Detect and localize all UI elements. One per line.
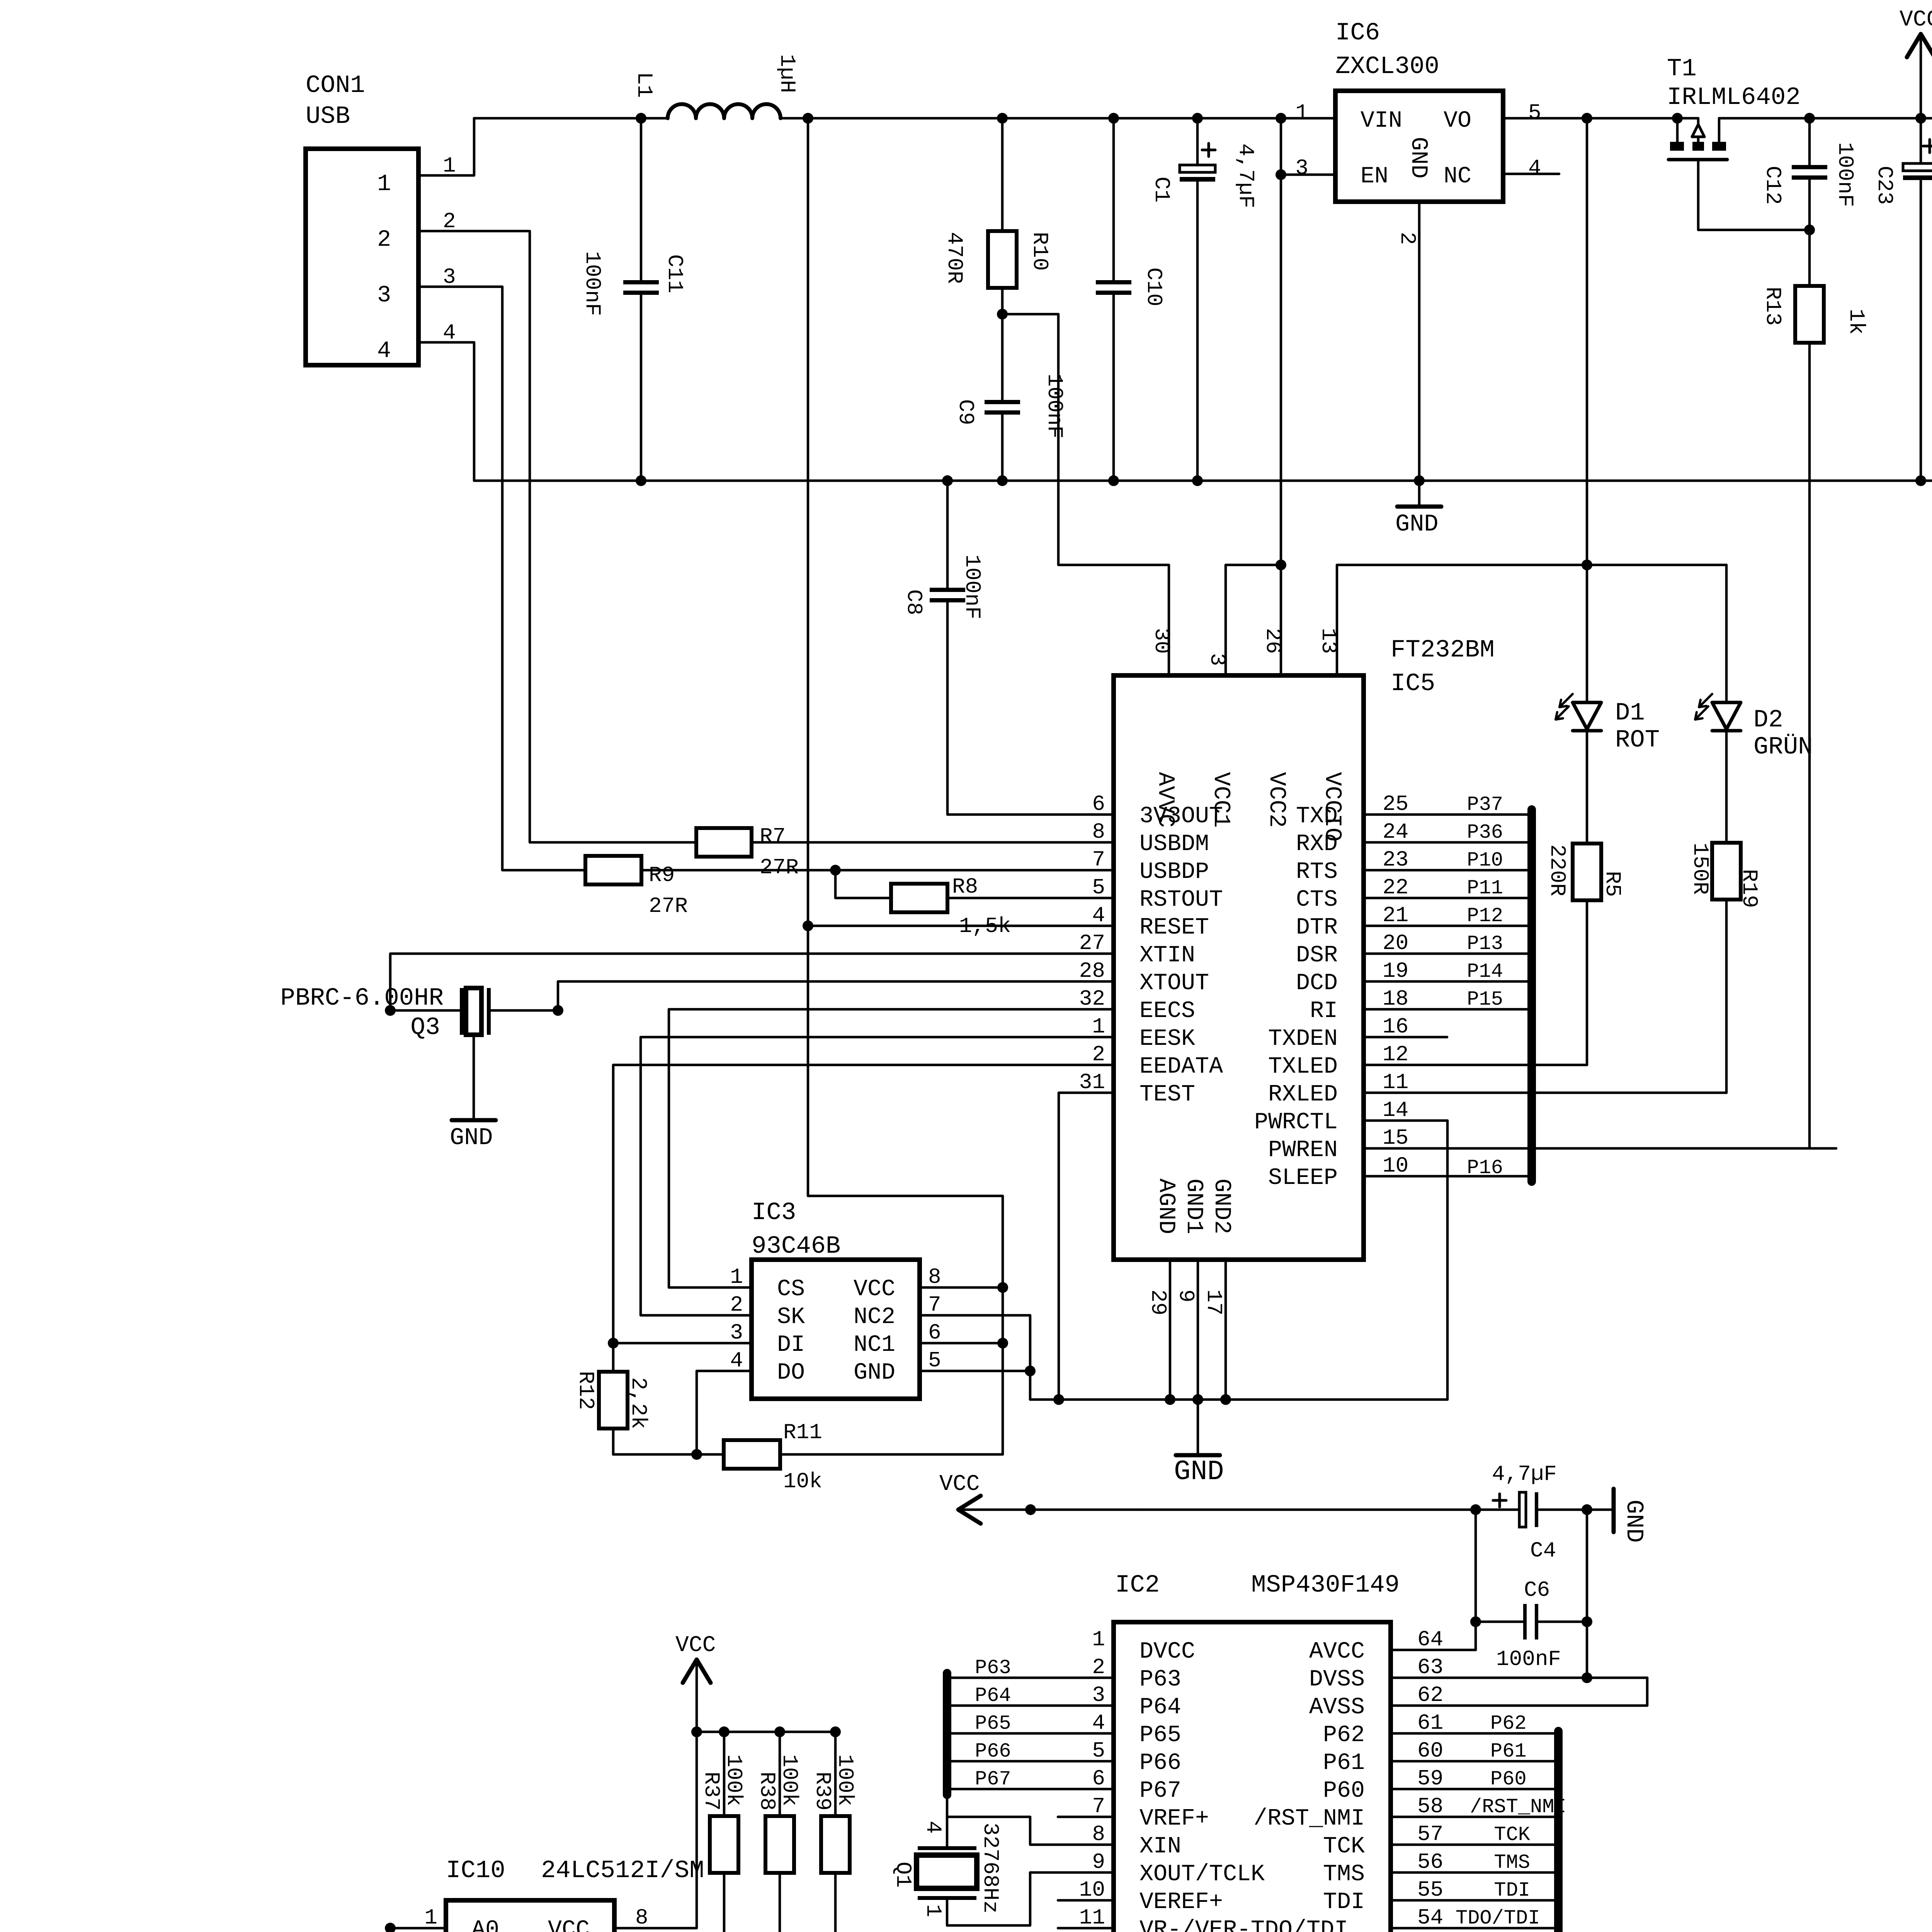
- svg-text:100nF: 100nF: [1496, 1647, 1561, 1672]
- svg-text:NC: NC: [1444, 163, 1471, 190]
- svg-text:60: 60: [1417, 1738, 1443, 1763]
- svg-text:GRÜN: GRÜN: [1753, 733, 1813, 761]
- svg-text:DVCC: DVCC: [1139, 1639, 1195, 1665]
- svg-text:220R: 220R: [1545, 844, 1570, 896]
- svg-text:3: 3: [730, 1320, 743, 1345]
- wire 93C46 VCC pin8: [920, 1282, 1008, 1293]
- svg-text:2,2k: 2,2k: [626, 1377, 651, 1429]
- wire CON1 pin3 to USBDP R9: [418, 287, 585, 870]
- svg-text:RESET: RESET: [1139, 915, 1209, 941]
- svg-text:USBDM: USBDM: [1139, 831, 1209, 857]
- svg-text:3: 3: [1295, 156, 1308, 180]
- svg-text:150R: 150R: [1688, 843, 1713, 895]
- svg-text:VCC: VCC: [548, 1917, 590, 1932]
- svg-text:4: 4: [1092, 1711, 1105, 1735]
- svg-text:GND: GND: [450, 1124, 493, 1151]
- svg-text:AGND: AGND: [1153, 1179, 1179, 1234]
- svg-text:31: 31: [1079, 1070, 1105, 1095]
- capacitor C4 4,7uF: [1492, 1462, 1614, 1563]
- svg-text:GND: GND: [1620, 1500, 1648, 1543]
- power symbol VCC arrow left MSP430: [939, 1472, 1139, 1524]
- resistor R38 100k: [755, 1732, 802, 1932]
- svg-text:5: 5: [1092, 875, 1105, 900]
- svg-text:P11: P11: [1467, 877, 1503, 900]
- IC3 93C46B EEPROM: [730, 1199, 941, 1399]
- svg-text:1: 1: [377, 171, 391, 197]
- svg-text:P67: P67: [1139, 1778, 1181, 1804]
- wire VCC rail after T1: [1719, 113, 1932, 124]
- resistor R19 150R: [1688, 843, 1762, 1093]
- wire AVCC filter node R10 C9 to FT232 AVCC: [997, 309, 1169, 675]
- svg-text:R10: R10: [1027, 232, 1052, 271]
- svg-text:100k: 100k: [777, 1754, 802, 1806]
- svg-text:DTR: DTR: [1296, 915, 1338, 941]
- svg-text:IC10: IC10: [446, 1857, 505, 1885]
- wire 93C46 NC2 pin7 to GND: [920, 1315, 1036, 1400]
- svg-text:P64: P64: [975, 1684, 1011, 1707]
- capacitor C23 4,7uF: [1872, 118, 1932, 486]
- svg-text:L1: L1: [632, 72, 656, 98]
- svg-text:58: 58: [1417, 1794, 1443, 1819]
- node VBUS after L1 vertical to FT232 RESET and 93C46 VCC: [808, 118, 1003, 1287]
- svg-text:5: 5: [1092, 1738, 1105, 1763]
- svg-text:ROT: ROT: [1615, 726, 1660, 754]
- svg-text:2: 2: [730, 1293, 743, 1317]
- wire FT232 RESET: [803, 920, 1114, 931]
- svg-text:R5: R5: [1600, 871, 1625, 897]
- svg-text:55: 55: [1417, 1878, 1443, 1902]
- svg-text:11: 11: [1079, 1905, 1105, 1930]
- ground symbol below IC5: [1174, 1400, 1224, 1488]
- svg-text:63: 63: [1417, 1655, 1443, 1680]
- power symbol VCC above pullups: [675, 1633, 716, 1732]
- svg-text:C12: C12: [1760, 166, 1785, 205]
- svg-text:PWRCTL: PWRCTL: [1254, 1109, 1338, 1136]
- transistor T1 IRLML6402 PMOS: [1667, 55, 1810, 230]
- svg-text:100nF: 100nF: [1042, 374, 1067, 439]
- capacitor C12 100nF: [1760, 118, 1857, 235]
- svg-text:5: 5: [1528, 100, 1541, 125]
- wire IC10 VCC pin8: [614, 1732, 697, 1928]
- resistor R12 2,2k: [573, 1343, 651, 1454]
- svg-text:IC3: IC3: [752, 1199, 796, 1227]
- svg-text:TDI: TDI: [1323, 1889, 1365, 1915]
- svg-text:RXLED: RXLED: [1268, 1082, 1338, 1108]
- svg-text:21: 21: [1383, 903, 1408, 928]
- wire IC6 GND pin2 to GND rail: [1414, 202, 1425, 486]
- svg-text:10k: 10k: [783, 1469, 822, 1494]
- capacitor C6 100nF: [1470, 1510, 1592, 1683]
- wires P62 P61 P60 to bus: [1391, 1712, 1558, 1791]
- resistor R39 100k: [810, 1732, 857, 1932]
- svg-text:R8: R8: [952, 874, 978, 899]
- svg-text:P60: P60: [1490, 1768, 1527, 1791]
- svg-text:ZXCL300: ZXCL300: [1335, 53, 1439, 81]
- svg-text:GND2: GND2: [1208, 1179, 1235, 1234]
- svg-text:C10: C10: [1141, 267, 1166, 306]
- IC5 top pins AVVC VCC1 VCC2 VCCIO: [1149, 628, 1345, 842]
- svg-text:DVSS: DVSS: [1309, 1667, 1365, 1693]
- svg-text:27R: 27R: [760, 855, 799, 880]
- svg-text:TDI: TDI: [1494, 1879, 1530, 1902]
- svg-text:DCD: DCD: [1296, 970, 1338, 997]
- resistor R37 100k: [699, 1732, 746, 1932]
- IC2 MSP430F149: [1114, 1571, 1400, 1932]
- svg-text:GND: GND: [854, 1360, 895, 1386]
- wire RXLED to D2: [1364, 1092, 1726, 1094]
- svg-text:13: 13: [1316, 628, 1341, 654]
- svg-text:9: 9: [1092, 1850, 1105, 1874]
- wire AVCC to VCC: [1391, 1649, 1476, 1651]
- bus MSP430 left P63-P67: [943, 1673, 951, 1795]
- svg-text:1k: 1k: [1844, 309, 1869, 335]
- svg-text:19: 19: [1383, 959, 1408, 983]
- svg-text:FT232BM: FT232BM: [1391, 636, 1495, 664]
- svg-text:TXLED: TXLED: [1268, 1054, 1338, 1080]
- svg-text:P67: P67: [975, 1768, 1011, 1791]
- svg-text:4,7µF: 4,7µF: [1233, 143, 1258, 208]
- wire TEST to GND: [1053, 1093, 1114, 1405]
- svg-text:R12: R12: [573, 1371, 598, 1410]
- svg-text:16: 16: [1383, 1014, 1408, 1039]
- svg-text:57: 57: [1417, 1822, 1443, 1847]
- svg-text:VR-/VER-TDO/TDI: VR-/VER-TDO/TDI: [1139, 1917, 1348, 1932]
- svg-text:P36: P36: [1467, 821, 1503, 844]
- wire IC6 NC stub: [1503, 173, 1559, 175]
- connector CON1 USB: [306, 72, 456, 365]
- wire CON1 pin4 to GND rail: [418, 342, 474, 481]
- svg-text:4: 4: [921, 1821, 946, 1834]
- svg-text:6: 6: [928, 1320, 941, 1345]
- svg-text:TDO/TDI: TDO/TDI: [1456, 1907, 1540, 1930]
- svg-text:SK: SK: [777, 1304, 805, 1330]
- svg-text:2: 2: [1092, 1042, 1105, 1067]
- svg-text:R19: R19: [1737, 869, 1762, 908]
- LED D2 GRUEN: [1695, 565, 1813, 843]
- wire VREF+ stub: [1058, 1816, 1114, 1818]
- svg-text:P15: P15: [1467, 988, 1503, 1011]
- svg-text:EESK: EESK: [1139, 1026, 1195, 1052]
- svg-text:100k: 100k: [833, 1754, 857, 1806]
- svg-text:8: 8: [1092, 820, 1105, 844]
- svg-text:24LC512I/SM: 24LC512I/SM: [541, 1857, 704, 1885]
- svg-text:R9: R9: [649, 863, 675, 888]
- svg-text:DO: DO: [777, 1360, 805, 1386]
- capacitor C1 4,7uF: [1149, 118, 1258, 481]
- svg-text:TEST: TEST: [1139, 1082, 1195, 1108]
- svg-text:USBDP: USBDP: [1139, 859, 1209, 885]
- crystal Q1 32768Hz: [891, 1821, 1003, 1917]
- resistor R9 27R on USBDP: [585, 856, 1114, 918]
- svg-text:3: 3: [1092, 1683, 1105, 1708]
- wire XTIN to Q3: [385, 954, 1114, 1016]
- wire VEREF+ stub: [1058, 1899, 1114, 1902]
- wire DVSS AVSS to GND: [1391, 1678, 1647, 1706]
- svg-text:NC2: NC2: [854, 1304, 895, 1330]
- svg-text:XOUT/TCLK: XOUT/TCLK: [1139, 1861, 1265, 1888]
- svg-text:PBRC-6.00HR: PBRC-6.00HR: [281, 985, 444, 1012]
- wire VCC1 VCC2 riser of IC5: [1226, 118, 1286, 675]
- wire EEDATA to 93C46 DI: [608, 1065, 1114, 1349]
- svg-text:EN: EN: [1361, 163, 1388, 190]
- svg-text:R11: R11: [783, 1420, 822, 1445]
- svg-text:4: 4: [1092, 903, 1105, 928]
- svg-text:25: 25: [1383, 792, 1408, 816]
- svg-text:R13: R13: [1760, 287, 1785, 326]
- wire AVCC VCCIO 3V3 rail: [1337, 118, 1726, 675]
- svg-text:P66: P66: [975, 1740, 1011, 1763]
- svg-text:P65: P65: [1139, 1722, 1181, 1748]
- svg-text:C9: C9: [953, 399, 978, 425]
- svg-text:RTS: RTS: [1296, 859, 1338, 885]
- svg-text:2: 2: [1395, 232, 1420, 245]
- svg-text:12: 12: [1383, 1042, 1408, 1067]
- IC6 ZXCL300 regulator: [1295, 19, 1541, 245]
- svg-text:IC6: IC6: [1335, 19, 1380, 47]
- wire IC6 VO 3V3 output: [1503, 113, 1677, 124]
- IC10 24LC512 EEPROM: [424, 1857, 704, 1932]
- ground symbol right of C4: [1614, 1489, 1648, 1543]
- wire EECS to 93C46 CS: [669, 1009, 1114, 1287]
- svg-text:T1: T1: [1667, 55, 1697, 83]
- resistor R10 470R: [942, 118, 1052, 314]
- svg-text:EEDATA: EEDATA: [1139, 1054, 1223, 1080]
- IC5 left pin names: [1079, 792, 1223, 1108]
- svg-text:30: 30: [1149, 628, 1174, 654]
- resistor R7 27R on USBDM: [696, 824, 1114, 880]
- IC2 left pin names and numbers: [1079, 1627, 1348, 1932]
- svg-text:3: 3: [377, 282, 391, 309]
- svg-text:EECS: EECS: [1139, 998, 1195, 1024]
- svg-text:15: 15: [1383, 1126, 1408, 1150]
- svg-text:61: 61: [1417, 1711, 1443, 1735]
- svg-text:XTOUT: XTOUT: [1139, 970, 1209, 997]
- wire 93C46 NC1 pin6: [920, 1338, 1008, 1349]
- IC5 right pin names: [1254, 792, 1408, 1191]
- svg-text:100nF: 100nF: [960, 554, 985, 619]
- svg-text:93C46B: 93C46B: [752, 1233, 840, 1260]
- svg-text:GND: GND: [1395, 510, 1439, 538]
- svg-text:P65: P65: [975, 1712, 1011, 1735]
- svg-text:TMS: TMS: [1494, 1851, 1530, 1874]
- svg-text:TCK: TCK: [1323, 1833, 1365, 1860]
- svg-text:23: 23: [1383, 847, 1408, 872]
- svg-text:28: 28: [1079, 959, 1105, 983]
- svg-text:100nF: 100nF: [1833, 142, 1857, 207]
- ground symbol below Q3: [450, 1120, 496, 1151]
- svg-text:VCC: VCC: [675, 1633, 716, 1658]
- LED D1 ROT: [1556, 565, 1660, 844]
- IC2 right pin names and numbers: [1253, 1627, 1443, 1932]
- svg-text:XIN: XIN: [1139, 1833, 1181, 1860]
- svg-text:10: 10: [1383, 1153, 1408, 1178]
- svg-text:P61: P61: [1490, 1740, 1527, 1763]
- svg-text:29: 29: [1146, 1289, 1170, 1315]
- resonator Q3 PBRC-6.00HR: [281, 985, 491, 1120]
- wire FT232 AGND to GND symbol net: [1025, 1504, 1519, 1515]
- svg-text:/RST_NMI: /RST_NMI: [1470, 1796, 1566, 1818]
- svg-text:/RST_NMI: /RST_NMI: [1253, 1806, 1365, 1832]
- svg-text:C1: C1: [1149, 177, 1174, 202]
- svg-text:54: 54: [1417, 1905, 1443, 1930]
- wire 93C46 DO pulldown: [691, 1371, 752, 1460]
- svg-text:IC5: IC5: [1391, 670, 1435, 698]
- svg-text:3: 3: [1205, 653, 1230, 666]
- svg-text:C8: C8: [901, 589, 926, 615]
- svg-text:VCC: VCC: [1900, 7, 1932, 32]
- svg-text:DI: DI: [777, 1332, 805, 1358]
- svg-text:59: 59: [1417, 1766, 1443, 1791]
- svg-text:32768Hz: 32768Hz: [978, 1823, 1003, 1913]
- svg-text:11: 11: [1383, 1070, 1408, 1095]
- IC5 bottom pins AGND GND1 GND2: [1146, 1179, 1235, 1315]
- svg-text:1: 1: [1295, 100, 1308, 125]
- svg-text:P16: P16: [1467, 1156, 1503, 1179]
- svg-text:VO: VO: [1444, 108, 1471, 134]
- IC5 FT232BM: [1114, 636, 1495, 1260]
- svg-text:RSTOUT: RSTOUT: [1139, 887, 1223, 913]
- wire FT232 ground pins to GND line: [1030, 1260, 1447, 1405]
- svg-text:8: 8: [635, 1905, 648, 1930]
- svg-text:4: 4: [377, 338, 391, 364]
- svg-text:GND: GND: [1405, 137, 1431, 179]
- wire PWREN to R13: [1364, 1147, 1836, 1150]
- svg-text:7: 7: [1092, 1794, 1105, 1819]
- svg-text:CTS: CTS: [1296, 887, 1338, 913]
- resistor R5 220R: [1545, 844, 1625, 1065]
- svg-text:VCC: VCC: [854, 1276, 895, 1303]
- svg-text:GND: GND: [1174, 1456, 1224, 1488]
- svg-text:D1: D1: [1615, 699, 1645, 727]
- svg-text:P60: P60: [1323, 1778, 1365, 1804]
- svg-text:100k: 100k: [721, 1754, 746, 1806]
- svg-text:14: 14: [1383, 1098, 1408, 1122]
- inductor L1 1uH: [632, 54, 799, 118]
- svg-text:XTIN: XTIN: [1139, 942, 1195, 969]
- resistor R13 1k: [1760, 230, 1869, 1148]
- svg-text:1: 1: [921, 1904, 946, 1917]
- svg-text:P62: P62: [1323, 1722, 1365, 1748]
- wires FT232 TXD..RI to bus: [1364, 793, 1532, 1011]
- wire TXLED to D1: [1364, 1064, 1587, 1066]
- svg-text:8: 8: [1092, 1822, 1105, 1847]
- svg-text:C23: C23: [1872, 166, 1897, 205]
- svg-text:P63: P63: [975, 1656, 1011, 1679]
- svg-text:RXD: RXD: [1296, 831, 1338, 857]
- svg-text:P63: P63: [1139, 1667, 1181, 1693]
- svg-text:MSP430F149: MSP430F149: [1251, 1571, 1400, 1599]
- svg-text:D2: D2: [1753, 706, 1783, 734]
- wire CON1 pin1 VBUS to top rail: [418, 118, 474, 175]
- svg-text:1: 1: [730, 1265, 743, 1289]
- capacitor C10 100nF: [1096, 118, 1166, 481]
- wire EESK to 93C46 SK: [641, 1037, 1114, 1315]
- svg-text:VCC2: VCC2: [1263, 772, 1289, 828]
- svg-text:SLEEP: SLEEP: [1268, 1165, 1338, 1191]
- power symbol VCC top: [1900, 7, 1932, 118]
- wire PWRCTL to GND: [1364, 1121, 1447, 1400]
- svg-text:A0: A0: [471, 1917, 499, 1932]
- wire XTOUT to Q3: [491, 981, 1114, 1016]
- svg-text:P62: P62: [1490, 1712, 1527, 1735]
- svg-text:26: 26: [1260, 628, 1285, 654]
- svg-text:USB: USB: [306, 103, 350, 131]
- capacitor C8 100nF: [901, 475, 1114, 815]
- svg-text:2: 2: [1092, 1655, 1105, 1680]
- svg-text:1: 1: [1092, 1627, 1105, 1652]
- wire Q1 pin4 to XIN: [947, 1795, 1114, 1846]
- svg-text:P13: P13: [1467, 932, 1503, 955]
- wire GND rail top section: [474, 475, 1932, 486]
- svg-text:22: 22: [1383, 875, 1408, 900]
- wire Q1 pin1 to XOUT: [947, 1872, 1114, 1925]
- wire pullup rail: [691, 1726, 841, 1737]
- svg-text:1: 1: [424, 1905, 437, 1930]
- svg-text:10: 10: [1079, 1878, 1105, 1902]
- svg-text:VIN: VIN: [1361, 108, 1402, 134]
- wire 93C46 GND pin5: [920, 1370, 1030, 1372]
- bus MSP430 right ports: [1554, 1731, 1563, 1932]
- svg-text:17: 17: [1201, 1289, 1226, 1315]
- svg-text:Q3: Q3: [410, 1014, 440, 1042]
- svg-text:18: 18: [1383, 986, 1408, 1011]
- svg-text:IC2: IC2: [1115, 1571, 1160, 1599]
- svg-text:VREF+: VREF+: [1139, 1806, 1209, 1832]
- svg-text:P66: P66: [1139, 1750, 1181, 1776]
- svg-text:1µH: 1µH: [775, 54, 799, 93]
- svg-text:4: 4: [1528, 156, 1541, 180]
- svg-text:P61: P61: [1323, 1750, 1365, 1776]
- svg-text:100nF: 100nF: [580, 251, 605, 316]
- svg-text:9: 9: [1173, 1289, 1198, 1303]
- svg-text:27R: 27R: [649, 894, 688, 918]
- svg-text:P12: P12: [1467, 905, 1503, 927]
- svg-text:AVCC: AVCC: [1309, 1639, 1365, 1665]
- svg-text:R38: R38: [755, 1772, 779, 1811]
- wire TXDEN stub: [1364, 1036, 1447, 1039]
- svg-text:R39: R39: [810, 1772, 835, 1811]
- svg-text:PWREN: PWREN: [1268, 1137, 1338, 1163]
- svg-text:C11: C11: [662, 254, 687, 293]
- svg-text:AVSS: AVSS: [1309, 1694, 1365, 1721]
- svg-text:TCK: TCK: [1494, 1823, 1530, 1846]
- svg-text:56: 56: [1417, 1850, 1443, 1874]
- svg-text:27: 27: [1079, 931, 1105, 956]
- capacitor C11 100nF: [580, 118, 687, 481]
- wires P63..P67 to IC2: [947, 1656, 1114, 1791]
- resistor R11 10k: [613, 1287, 1003, 1494]
- svg-text:5: 5: [928, 1348, 941, 1373]
- svg-text:P64: P64: [1139, 1694, 1181, 1721]
- svg-text:6: 6: [1092, 792, 1105, 816]
- svg-text:8: 8: [928, 1265, 941, 1289]
- svg-text:3V3OUT: 3V3OUT: [1139, 803, 1223, 830]
- svg-text:4,7µF: 4,7µF: [1492, 1462, 1557, 1486]
- svg-text:470R: 470R: [942, 232, 967, 284]
- svg-text:1: 1: [1092, 1014, 1105, 1039]
- svg-text:4: 4: [730, 1348, 743, 1373]
- svg-text:TMS: TMS: [1323, 1861, 1365, 1888]
- resistor R8 1,5k RSTOUT: [835, 870, 1114, 939]
- bus FT232 to MSP430 port nets: [1527, 810, 1536, 1182]
- wire SLEEP P16 to bus: [1364, 1156, 1532, 1179]
- svg-text:2: 2: [377, 227, 391, 253]
- svg-text:VEREF+: VEREF+: [1139, 1889, 1223, 1915]
- svg-text:VCC: VCC: [939, 1472, 980, 1497]
- svg-text:NC1: NC1: [854, 1332, 895, 1358]
- svg-text:64: 64: [1417, 1627, 1443, 1652]
- ground symbol below IC6: [1395, 481, 1441, 538]
